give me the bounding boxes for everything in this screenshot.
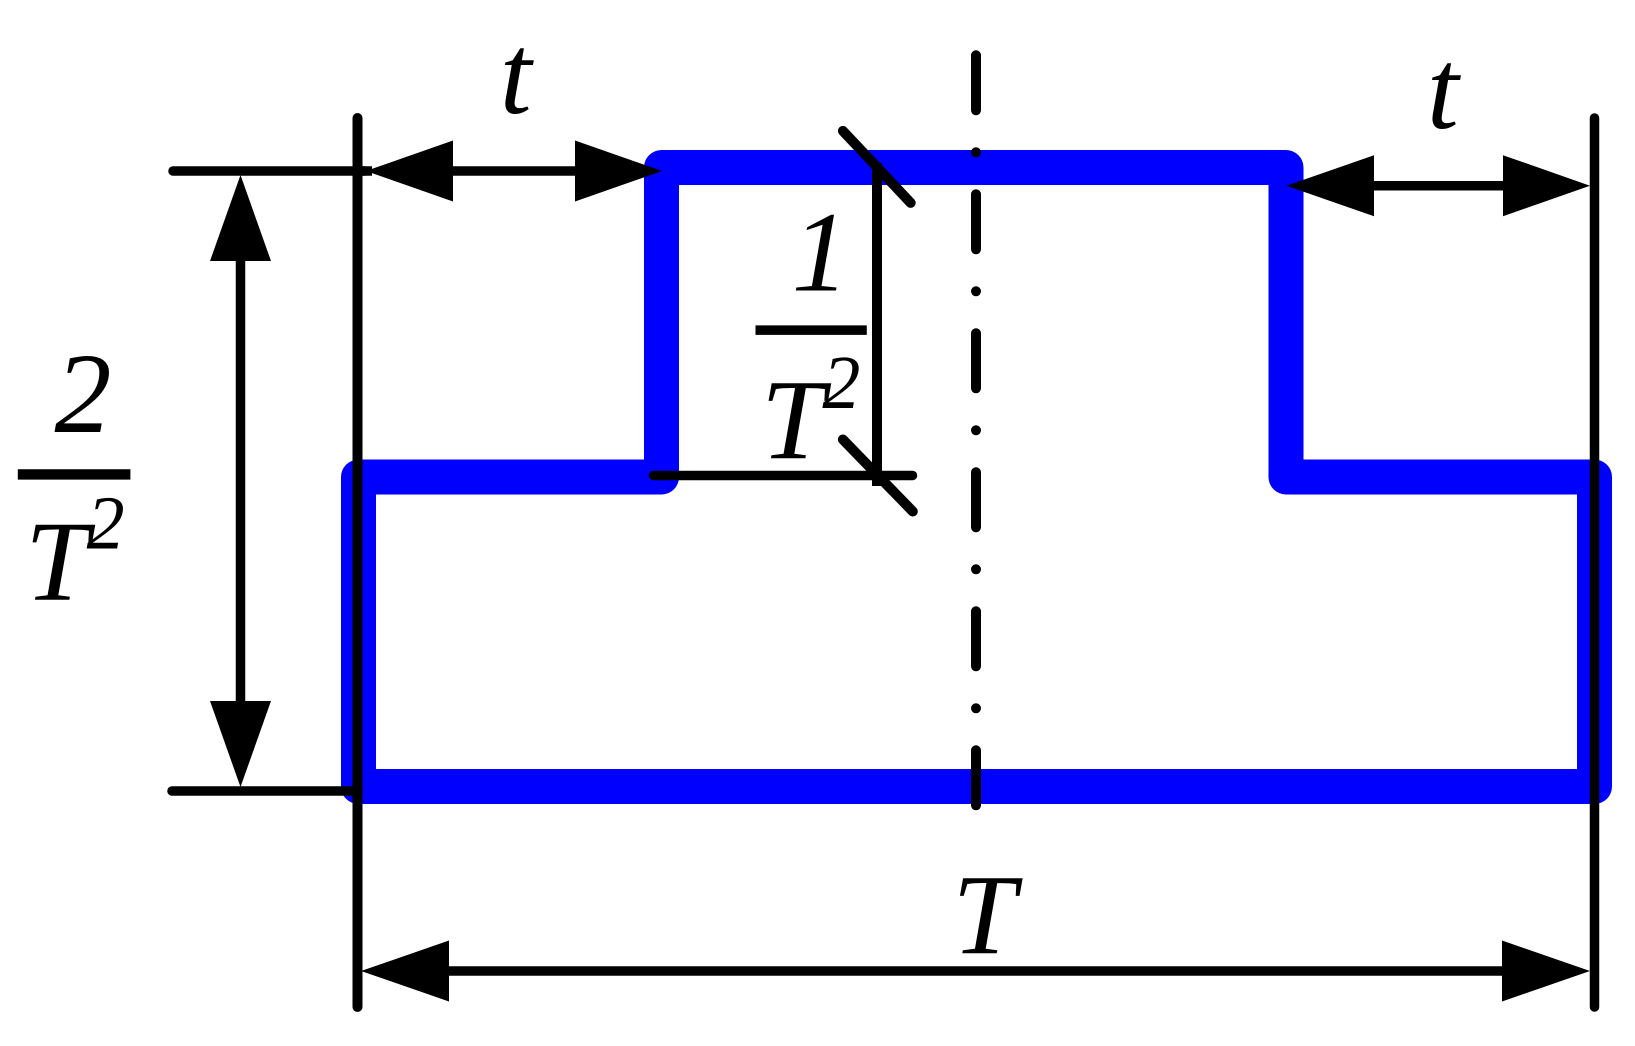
right t dimension line xyxy=(1372,181,1505,191)
left extension line xyxy=(353,118,363,1007)
vertical dimension arrowhead down xyxy=(210,701,271,787)
top-left witness tick butt extension xyxy=(360,166,372,176)
bottom T dimension line xyxy=(447,966,1504,976)
centre dash-dot line xyxy=(971,55,981,808)
vertical dimension arrowhead up xyxy=(210,175,271,261)
vertical dimension arrow 2/T2 shaft xyxy=(236,259,246,703)
right t arrowhead pointing right xyxy=(1503,155,1590,216)
svg-text:2: 2 xyxy=(822,341,860,425)
fraction bar of 1/T2 xyxy=(756,325,867,335)
right t arrowhead pointing left xyxy=(1286,155,1374,216)
left t dimension line xyxy=(451,166,577,176)
blue stepped waveform outline xyxy=(359,168,1595,787)
svg-text:t: t xyxy=(1427,26,1461,153)
svg-text:1: 1 xyxy=(792,189,849,316)
1/T2 dimension line vertical xyxy=(872,163,882,486)
bottom T arrowhead pointing right xyxy=(1502,941,1590,1002)
right extension line xyxy=(1590,118,1600,1007)
svg-text:T: T xyxy=(952,851,1023,978)
fraction bar of 2/T2 xyxy=(18,469,131,479)
left t arrowhead pointing left xyxy=(366,141,453,202)
bottom-left witness tick for 2/T2 dimension xyxy=(172,786,357,796)
1/T2 slash tick top xyxy=(843,131,911,203)
svg-text:2: 2 xyxy=(55,330,112,457)
1/T2 slash tick bottom xyxy=(843,440,913,512)
1/T2 witness line at mid level xyxy=(654,471,913,481)
bottom T arrowhead pointing left xyxy=(361,941,449,1002)
svg-text:2: 2 xyxy=(87,482,125,566)
svg-text:t: t xyxy=(500,11,534,138)
top-left witness tick for 2/T2 dimension xyxy=(173,166,365,176)
left t arrowhead pointing right xyxy=(575,141,662,202)
svg-text:T: T xyxy=(25,497,96,624)
